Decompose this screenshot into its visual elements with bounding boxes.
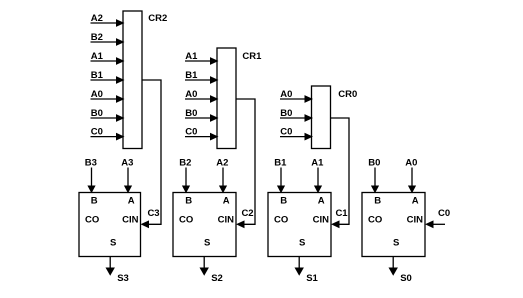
carry block CR1 [217,48,262,149]
input A0 to adder U0 [405,158,417,194]
svg-text:A0: A0 [91,89,103,100]
svg-text:A1: A1 [91,51,104,62]
svg-text:C0: C0 [185,126,197,137]
wire B1 into CR1 [185,70,219,84]
input A3 to adder U3 [121,158,133,194]
svg-text:C2: C2 [241,208,253,219]
wire A1 into CR1 [185,51,219,65]
svg-text:CO: CO [85,215,99,226]
svg-text:CR2: CR2 [148,13,167,24]
svg-text:B: B [374,196,381,207]
wire A0 into CR0 [280,89,313,103]
input B3 to adder U3 [85,158,97,194]
wire A1 into CR2 [91,51,125,65]
input A1 to adder U1 [311,158,324,194]
svg-text:CIN: CIN [218,215,235,226]
svg-text:C0: C0 [91,126,103,137]
wire C0 into CR0 [280,126,313,140]
svg-text:A: A [128,196,135,207]
svg-text:S: S [110,238,116,249]
svg-text:CIN: CIN [407,215,424,226]
wire A2 into CR2 [91,13,125,27]
svg-text:S0: S0 [400,273,412,284]
svg-text:S: S [393,238,399,249]
svg-text:A2: A2 [91,13,103,24]
svg-text:B0: B0 [91,108,103,119]
svg-text:CR1: CR1 [242,51,262,62]
svg-text:C1: C1 [335,208,348,219]
input B1 to adder U1 [274,158,287,194]
svg-text:A1: A1 [311,158,324,169]
svg-text:C3: C3 [147,208,159,219]
svg-text:B: B [280,196,287,207]
svg-text:A0: A0 [185,89,197,100]
svg-text:CO: CO [179,215,193,226]
svg-text:CO: CO [274,215,288,226]
svg-text:A: A [412,196,419,207]
svg-text:B2: B2 [179,158,191,169]
net C1: CR0 output to CIN of adder U1 [331,118,350,228]
carry block CR2 [123,11,167,149]
input A2 to adder U2 [216,158,228,194]
svg-text:B1: B1 [185,70,198,81]
wire A0 into CR1 [185,89,219,103]
input B2 to adder U2 [179,158,191,194]
full adder U3 [79,193,141,257]
full adder U0 [362,193,425,257]
svg-text:A: A [318,196,325,207]
net C0 into CIN of adder U0 [425,208,450,228]
wire C0 into CR1 [185,126,219,140]
svg-text:B1: B1 [274,158,287,169]
full adder U2 [173,193,236,257]
svg-text:CIN: CIN [313,215,330,226]
output S3 from adder U3 [106,257,129,285]
svg-text:S2: S2 [211,273,223,284]
svg-text:A3: A3 [121,158,133,169]
svg-text:B: B [91,196,98,207]
svg-text:B2: B2 [91,32,103,43]
wire B0 into CR1 [185,108,219,122]
svg-text:A0: A0 [405,158,417,169]
svg-text:A2: A2 [216,158,228,169]
svg-text:B0: B0 [368,158,380,169]
svg-text:B0: B0 [280,108,292,119]
svg-text:B: B [185,196,192,207]
wire C0 into CR2 [91,126,125,140]
svg-text:S: S [204,238,210,249]
svg-text:CR0: CR0 [338,89,357,100]
wire B1 into CR2 [91,70,125,84]
svg-text:C0: C0 [280,126,292,137]
wire B2 into CR2 [91,32,125,46]
full adder U1 [268,193,331,257]
input B0 to adder U0 [368,158,380,194]
svg-text:B0: B0 [185,108,197,119]
svg-text:C0: C0 [438,208,450,219]
svg-text:CIN: CIN [122,215,139,226]
svg-text:A1: A1 [185,51,198,62]
wire B0 into CR2 [91,108,125,122]
svg-text:A: A [223,196,230,207]
output S2 from adder U2 [200,257,223,285]
svg-text:S3: S3 [117,273,129,284]
wire A0 into CR2 [91,89,125,103]
carry block CR0 [312,86,358,149]
output S1 from adder U1 [295,257,319,285]
svg-text:A0: A0 [280,89,292,100]
net C3: CR2 output to CIN of adder U3 [141,80,162,228]
svg-text:CO: CO [368,215,382,226]
net C2: CR1 output to CIN of adder U2 [236,99,255,228]
svg-text:S: S [299,238,305,249]
svg-text:B3: B3 [85,158,97,169]
output S0 from adder U0 [389,257,412,285]
svg-text:B1: B1 [91,70,104,81]
svg-text:S1: S1 [306,273,318,284]
wire B0 into CR0 [280,108,313,122]
